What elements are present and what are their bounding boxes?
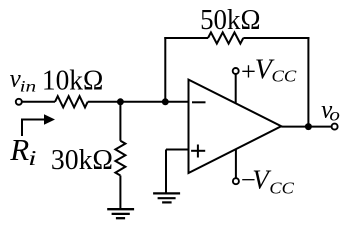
input terminal v_in (open circle)	[16, 99, 22, 105]
label v_o	[321, 97, 340, 125]
svg-text:in: in	[20, 78, 37, 95]
wire: output node to output terminal	[308, 126, 331, 128]
op-amp non-inverting input plus sign	[191, 145, 205, 158]
node B junction dot	[162, 98, 169, 105]
wire: non-inverting input to ground branch	[166, 149, 189, 151]
label R_i	[9, 132, 37, 170]
wire: op-amp output to output node	[281, 126, 308, 128]
svg-text:30kΩ: 30kΩ	[51, 144, 113, 176]
node A junction dot	[117, 98, 124, 105]
wire: node A down to 30k resistor	[119, 102, 121, 141]
svg-text:+: +	[241, 56, 256, 86]
svg-text:CC: CC	[269, 179, 294, 198]
svg-text:R: R	[9, 132, 29, 167]
+VCC terminal (open circle)	[233, 68, 239, 74]
label v_in	[10, 66, 37, 96]
label -VCC	[241, 164, 295, 197]
wire: feedback right vertical down to output node	[307, 37, 309, 127]
op-amp inverting input minus sign	[192, 101, 206, 103]
resistor R 30k vertical zigzag	[115, 141, 125, 176]
wire: input terminal to 10k resistor	[23, 101, 56, 103]
wire: 30k resistor to ground	[119, 176, 121, 209]
wire: node B up to feedback loop	[164, 37, 166, 102]
-VCC terminal (open circle)	[233, 178, 239, 184]
svg-text:CC: CC	[272, 67, 297, 86]
wire: +VCC terminal to op-amp top edge	[235, 74, 237, 103]
output terminal v_o (open circle)	[332, 124, 338, 130]
label +VCC	[241, 55, 297, 86]
wire: feedback top left segment	[164, 37, 208, 39]
op-amp U1 triangle	[189, 80, 282, 173]
ground symbol below 30k	[107, 209, 134, 218]
wire: node B to op-amp inverting input	[165, 101, 188, 103]
wire: node A to node B	[120, 101, 165, 103]
output node junction dot	[305, 123, 312, 130]
svg-text:i: i	[28, 146, 37, 170]
input current arrow R_i	[22, 114, 55, 136]
svg-text:o: o	[329, 105, 340, 125]
wire: non-inverting ground branch vertical	[165, 150, 167, 194]
svg-text:50kΩ: 50kΩ	[200, 4, 260, 36]
svg-text:10kΩ: 10kΩ	[42, 64, 103, 96]
wire: 10k resistor to node A	[88, 101, 121, 103]
ground symbol at non-inverting input	[153, 193, 180, 202]
resistor R 50k zigzag	[208, 32, 243, 43]
resistor R 10k zigzag	[55, 96, 88, 107]
wire: feedback top right segment	[243, 37, 309, 39]
wire: op-amp bottom edge to -VCC terminal	[235, 149, 237, 178]
